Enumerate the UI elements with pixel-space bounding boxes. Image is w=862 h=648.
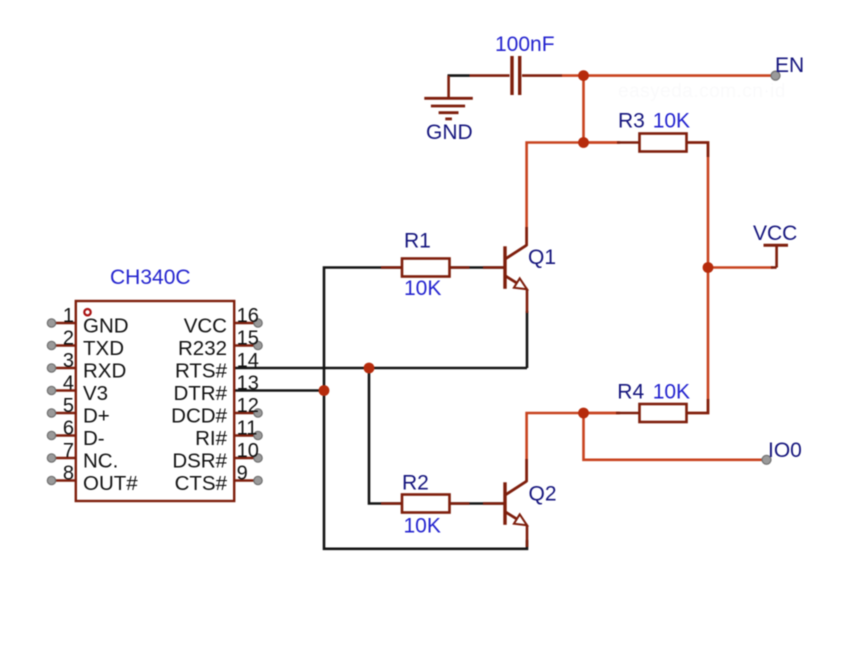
- capacitor C1 leads: [470, 74, 510, 77]
- svg-text:6: 6: [63, 418, 74, 440]
- svg-text:100nF: 100nF: [495, 33, 555, 56]
- IC U1 CH340C body: [76, 301, 234, 501]
- svg-text:IO0: IO0: [768, 439, 802, 462]
- svg-text:D-: D-: [83, 427, 105, 450]
- svg-text:14: 14: [237, 350, 259, 372]
- IC pin names left: [83, 315, 138, 496]
- wire IO0 net: [584, 413, 767, 460]
- svg-text:15: 15: [237, 328, 259, 350]
- svg-text:DCD#: DCD#: [171, 405, 227, 428]
- junction node VCC rail: [703, 262, 714, 273]
- svg-text:11: 11: [237, 418, 258, 440]
- wire VCC rail right: [687, 143, 709, 414]
- svg-text:12: 12: [237, 395, 259, 417]
- IC pin numbers right: [237, 305, 259, 485]
- svg-text:4: 4: [63, 373, 74, 395]
- svg-text:V3: V3: [83, 382, 108, 405]
- svg-text:10: 10: [237, 440, 259, 462]
- svg-text:16: 16: [237, 305, 259, 327]
- svg-text:DSR#: DSR#: [172, 450, 227, 473]
- svg-text:CH340C: CH340C: [110, 266, 191, 289]
- wire EN net horizontal: [562, 74, 776, 77]
- wire DTR# node up to R1: [324, 268, 402, 391]
- VCC net flag: [764, 245, 789, 267]
- resistor R4: [616, 399, 708, 422]
- wire R3 left: [584, 141, 621, 144]
- svg-text:RI#: RI#: [195, 427, 228, 450]
- IO0 pin dot: [762, 455, 771, 464]
- svg-text:OUT#: OUT#: [83, 472, 138, 495]
- IC pin numbers left: [63, 305, 74, 485]
- unconnected pin dots gray: [47, 71, 780, 485]
- IC left pin stubs: [52, 323, 76, 481]
- junction node EN/cap: [578, 70, 589, 81]
- svg-text:EN: EN: [775, 54, 804, 77]
- svg-text:Q2: Q2: [529, 483, 557, 506]
- svg-text:13: 13: [237, 373, 259, 395]
- wire R4 left: [584, 412, 621, 415]
- EN pin dot: [771, 71, 780, 80]
- svg-text:10K: 10K: [404, 515, 441, 538]
- junction node R4/IO0/Q2 collector: [578, 408, 589, 419]
- svg-text:R3: R3: [618, 110, 645, 133]
- svg-text:Q1: Q1: [528, 246, 556, 269]
- resistor R2: [381, 495, 504, 513]
- wire R2 to Q2 base (black under leads): [450, 502, 506, 505]
- svg-text:3: 3: [63, 350, 74, 372]
- svg-text:10K: 10K: [653, 110, 690, 133]
- svg-text:easyeda.com.cn·id: easyeda.com.cn·id: [618, 81, 786, 102]
- pin1 indicator circle: [84, 309, 90, 315]
- svg-text:R1: R1: [404, 230, 431, 253]
- svg-text:7: 7: [63, 440, 74, 462]
- wire EN junction vertical: [582, 76, 585, 143]
- ground symbol: [424, 76, 473, 119]
- wire R1 to Q1 base (black under leads): [450, 266, 506, 269]
- wire DTR# node down to Q2 emitter: [324, 391, 527, 549]
- wire VCC stub: [708, 266, 773, 269]
- transistor Q2: [505, 459, 527, 547]
- svg-text:TXD: TXD: [83, 337, 124, 360]
- svg-text:GND: GND: [83, 315, 129, 338]
- svg-text:R4: R4: [617, 381, 644, 404]
- svg-text:NC.: NC.: [83, 450, 118, 473]
- svg-text:R232: R232: [178, 337, 227, 360]
- svg-text:RTS#: RTS#: [175, 360, 228, 383]
- svg-text:VCC: VCC: [753, 222, 797, 245]
- wire Q1 emitter vertical black part: [526, 311, 529, 368]
- capacitor C1 100nF plates: [510, 56, 513, 95]
- svg-text:RXD: RXD: [83, 360, 126, 383]
- svg-text:10K: 10K: [653, 381, 690, 404]
- junction node DTR#: [319, 385, 330, 396]
- IC pin names right: [171, 315, 227, 496]
- svg-text:VCC: VCC: [184, 315, 227, 338]
- wire R3 node to Q1 collector: [527, 143, 620, 246]
- wire RTS# to Q1 emitter (black): [234, 367, 527, 370]
- wire DTR# stub (black): [234, 389, 324, 392]
- svg-text:8: 8: [63, 463, 74, 485]
- svg-text:9: 9: [237, 463, 248, 485]
- svg-text:1: 1: [63, 305, 74, 327]
- svg-text:GND: GND: [426, 121, 473, 144]
- resistor R3: [617, 134, 708, 158]
- svg-text:CTS#: CTS#: [175, 472, 228, 495]
- wire RTS# node down to R2: [369, 368, 402, 504]
- junction node RTS# to R2: [364, 363, 375, 374]
- svg-text:R2: R2: [402, 472, 429, 495]
- svg-text:5: 5: [63, 395, 74, 417]
- resistor R1: [381, 259, 504, 277]
- svg-text:DTR#: DTR#: [173, 382, 227, 405]
- IC right pin stubs: [234, 323, 257, 481]
- svg-text:D+: D+: [83, 405, 110, 428]
- svg-text:10K: 10K: [404, 277, 441, 300]
- transistor Q1: [505, 227, 527, 313]
- svg-text:2: 2: [63, 328, 74, 350]
- wire R4 node left to Q2 collector: [527, 413, 620, 481]
- junction node R3/Q1 collector: [578, 137, 589, 148]
- wire GND to capacitor (black): [448, 74, 470, 77]
